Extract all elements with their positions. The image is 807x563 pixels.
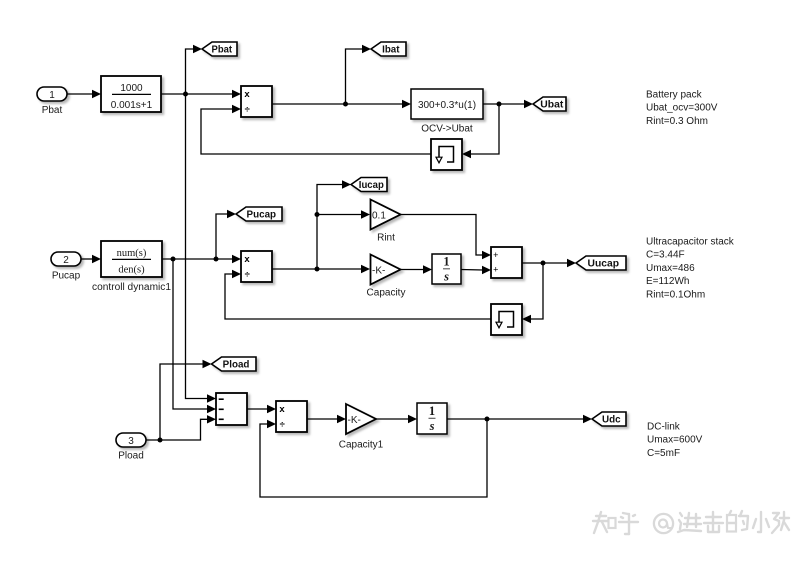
wire inport3 to sum S2 input 3 <box>146 415 216 440</box>
goto tag Ibat <box>371 42 406 56</box>
svg-text:x: x <box>279 404 285 415</box>
svg-text:Uucap: Uucap <box>588 259 620 270</box>
inport 3 Pload <box>116 433 146 462</box>
svg-text:-K-: -K- <box>348 415 361 426</box>
wire memory M1 feedback to divide1 <box>201 105 431 154</box>
svg-text:Rint=0.1Ohm: Rint=0.1Ohm <box>646 289 705 300</box>
wire gain Rint to sum S1 input 1 <box>401 215 492 260</box>
inport 2 Pucap <box>51 252 81 282</box>
svg-text:den(s): den(s) <box>118 265 145 276</box>
node E junction Pucap upper <box>214 257 219 262</box>
svg-text:C=3.44F: C=3.44F <box>646 250 685 261</box>
goto tag Pload <box>212 357 257 371</box>
svg-text:num(s): num(s) <box>117 248 147 259</box>
wire node A up to Pbat tag <box>186 45 203 94</box>
svg-text:Rint=0.3 Ohm: Rint=0.3 Ohm <box>646 116 708 127</box>
svg-text:OCV->Ubat: OCV->Ubat <box>421 124 473 135</box>
goto tag Uucap <box>576 256 626 270</box>
svg-text:0.1: 0.1 <box>372 210 386 221</box>
svg-text:1: 1 <box>49 90 55 101</box>
svg-text:1: 1 <box>443 255 449 269</box>
wire node H down to memory M2 <box>522 263 543 323</box>
integrator I1 1/s <box>432 254 461 284</box>
goto tag Pucap <box>236 207 282 221</box>
svg-text:3: 3 <box>128 436 134 447</box>
product divide1 X1 <box>241 86 272 117</box>
svg-text:1000: 1000 <box>120 83 143 94</box>
goto tag Ubat <box>533 97 566 111</box>
svg-text:Pload: Pload <box>118 451 144 462</box>
sum S1 ++ <box>491 247 522 278</box>
svg-text:Capacity1: Capacity1 <box>339 440 384 451</box>
wire sum S1 to Uucap tag <box>522 259 576 267</box>
svg-text:Udc: Udc <box>602 415 621 426</box>
svg-text:Pucap: Pucap <box>52 271 81 282</box>
svg-text:Umax=600V: Umax=600V <box>647 435 703 446</box>
wire inport1 to TF1 <box>67 90 101 98</box>
gain Rint 0.1 <box>371 200 401 244</box>
svg-text:2: 2 <box>63 255 69 266</box>
wire inport2 to controll dynamic1 <box>81 255 101 263</box>
wire node D down to sum S2 input 2 <box>173 259 216 413</box>
svg-text:Iucap: Iucap <box>359 180 384 191</box>
svg-text:÷: ÷ <box>280 420 285 431</box>
svg-text:Pbat: Pbat <box>212 45 233 56</box>
wire node F up to Iucap tag <box>317 180 351 269</box>
svg-text:x: x <box>244 254 250 265</box>
inport 1 Pbat <box>37 87 67 116</box>
wire node J feedback to divide3 <box>260 419 487 497</box>
product divide3 X3 <box>276 401 307 432</box>
node G junction Rint <box>315 212 320 217</box>
gain Capacity1 -K- <box>339 404 384 451</box>
svg-text:÷: ÷ <box>245 270 250 281</box>
wire node A down to sum S2 input 1 <box>186 94 217 403</box>
integrator I2 1/s <box>417 403 447 434</box>
wire gain Capacity1 to integrator I2 <box>376 415 417 423</box>
svg-text:Pbat: Pbat <box>42 105 63 116</box>
node I junction Pload <box>158 438 163 443</box>
svg-text:+: + <box>493 250 498 260</box>
svg-text:Ubat: Ubat <box>540 100 564 111</box>
svg-text:+: + <box>493 264 498 274</box>
wire divide1 to Fcn OCV <box>272 100 411 108</box>
svg-text:Ultracapacitor stack: Ultracapacitor stack <box>646 237 735 248</box>
wire node I up to Pload tag <box>160 360 212 440</box>
svg-text:Ibat: Ibat <box>382 45 400 56</box>
node D junction Pucap lower <box>171 257 176 262</box>
svg-text:Umax=486: Umax=486 <box>646 263 695 274</box>
svg-text:-K-: -K- <box>372 265 385 276</box>
wire integrator I1 to sum S1 input 2 <box>461 266 491 274</box>
annotation Ultracapacitor stack <box>646 237 735 301</box>
goto tag Iucap <box>351 178 387 192</box>
wire node E up to Pucap tag <box>216 210 236 259</box>
svg-text:DC-link: DC-link <box>647 422 681 433</box>
sum S2 --- <box>216 393 247 425</box>
node J junction Udc <box>485 417 490 422</box>
wire sum S2 to divide3 <box>247 405 276 413</box>
svg-text:300+0.3*u(1): 300+0.3*u(1) <box>418 100 476 111</box>
wire gain Capacity to integrator I1 <box>401 265 433 273</box>
node A junction Pbat <box>183 92 188 97</box>
gain Capacity -K- <box>367 255 406 299</box>
svg-text:C=5mF: C=5mF <box>647 448 680 459</box>
wire node G to gain Rint <box>317 210 370 218</box>
svg-text:Pucap: Pucap <box>247 210 277 221</box>
goto tag Pbat <box>202 42 237 56</box>
product divide2 X2 <box>241 251 272 282</box>
svg-text:E=112Wh: E=112Wh <box>646 276 689 287</box>
svg-text:0.001s+1: 0.001s+1 <box>111 100 153 111</box>
svg-text:x: x <box>244 89 250 100</box>
node C junction Ubat <box>497 102 502 107</box>
wire node B up to Ibat tag <box>346 45 372 104</box>
svg-text:Ubat_ocv=300V: Ubat_ocv=300V <box>646 103 718 114</box>
wire node C down to memory M1 <box>462 104 499 158</box>
goto tag Udc <box>592 412 626 426</box>
transfer fcn TF1 1000/(0.001s+1) <box>101 76 161 112</box>
watermark zhihu @jinjidexiaozhang <box>593 511 789 534</box>
wire divide2 to gain Capacity <box>272 265 370 273</box>
node H junction Uucap <box>541 261 546 266</box>
node B junction Ibat <box>343 102 348 107</box>
svg-text:controll dynamic1: controll dynamic1 <box>92 282 171 293</box>
svg-text:1: 1 <box>429 404 435 418</box>
svg-text:Pload: Pload <box>223 360 250 371</box>
svg-text:Rint: Rint <box>377 233 395 244</box>
wire TF1 to divide1 <box>161 90 241 98</box>
svg-text:s: s <box>443 269 449 283</box>
svg-text:s: s <box>429 419 435 433</box>
svg-text:÷: ÷ <box>245 105 250 116</box>
wire memory M2 feedback to divide2 <box>225 270 491 319</box>
svg-text:Battery pack: Battery pack <box>646 90 703 101</box>
annotation Battery pack <box>646 90 718 127</box>
memory M1 <box>431 139 462 170</box>
wire divide3 to gain Capacity1 <box>307 415 346 423</box>
wire controll dynamic1 to divide2 <box>162 255 241 263</box>
svg-text:Capacity: Capacity <box>367 288 406 299</box>
transfer fcn TF2 controll dynamic1 <box>92 241 171 293</box>
memory M2 <box>491 304 522 335</box>
annotation DC-link <box>647 422 703 459</box>
fcn block U1 OCV->Ubat <box>411 89 483 135</box>
wire Fcn to Ubat tag <box>483 100 533 108</box>
wire integrator I2 to Udc tag <box>447 415 592 423</box>
node F junction Iucap <box>315 267 320 272</box>
